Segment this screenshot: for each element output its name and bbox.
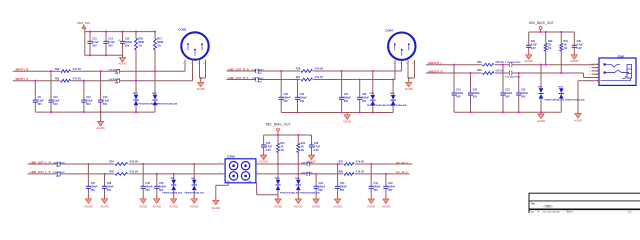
svg-text:AGND: AGND xyxy=(190,205,198,209)
wire middle ground rail xyxy=(281,112,393,114)
capacitor C39 xyxy=(311,135,313,143)
resistor R19 xyxy=(300,69,313,73)
wire CON3 shell ground xyxy=(205,65,207,78)
wire CON7 pin6 ground xyxy=(578,80,592,82)
capacitor C9 column xyxy=(34,81,36,100)
svg-text:TE12: TE12 xyxy=(390,93,396,95)
svg-text:50V: 50V xyxy=(505,96,510,99)
wire MIC_BIAS bottom rail xyxy=(264,134,312,136)
svg-text:PESD5V0S1BA-A08: PESD5V0S1BA-A08 xyxy=(565,98,585,101)
capacitor C38 column xyxy=(104,174,106,186)
svg-text:AGND: AGND xyxy=(367,205,375,209)
ground AGND TE6 xyxy=(191,199,197,204)
svg-text:C36 220uF/: C36 220uF/ xyxy=(301,162,313,164)
svg-text:MIC_BIAS_OUT: MIC_BIAS_OUT xyxy=(529,21,554,25)
ground AGND of C11 C14 C15 xyxy=(122,55,124,57)
capacitor C13 column xyxy=(100,71,102,100)
ground AGND C38 xyxy=(101,199,107,204)
svg-text:TE15: TE15 xyxy=(275,178,281,180)
capacitor C25 column xyxy=(359,80,361,98)
svg-text:4: 4 xyxy=(589,74,590,76)
capacitor C41 column xyxy=(370,164,372,186)
svg-text:PESD5V0S1BA-A08: PESD5V0S1BA-A08 xyxy=(163,191,183,194)
capacitor C28 series xyxy=(57,172,59,176)
ground AGND C44 xyxy=(140,199,146,204)
wire LINE_OUT_L_N xyxy=(28,163,223,165)
svg-text:16V: 16V xyxy=(56,176,60,178)
TVS diode TE16 xyxy=(297,174,299,180)
capacitor C16 series xyxy=(116,69,118,73)
capacitor C14 xyxy=(105,32,107,42)
net flag circle bottom xyxy=(277,128,280,131)
capacitor C22 column xyxy=(470,73,472,93)
net flag circle xyxy=(539,26,542,29)
svg-text:4.7k 1%: 4.7k 1% xyxy=(495,70,503,73)
svg-text:6.3V: 6.3V xyxy=(314,149,319,152)
svg-text:TE14: TE14 xyxy=(152,92,158,95)
svg-text:AGND: AGND xyxy=(197,87,205,91)
svg-text:C16 220uF/: C16 220uF/ xyxy=(108,70,120,72)
capacitor C11 xyxy=(89,32,91,42)
wire INPUT1_N xyxy=(13,70,185,72)
svg-text:C29 220uF/: C29 220uF/ xyxy=(53,162,65,164)
svg-text:PESD5V0S1BA-A08: PESD5V0S1BA-A08 xyxy=(158,102,178,105)
svg-text:50V: 50V xyxy=(340,189,345,192)
wire CON5 G2 ground xyxy=(256,183,258,195)
svg-text:50V: 50V xyxy=(300,100,305,103)
svg-text:AGND: AGND xyxy=(212,206,220,210)
svg-text:4.7k 1%: 4.7k 1% xyxy=(73,77,81,80)
CON7 jack sleeve line xyxy=(601,78,631,81)
junction dots on ground return xyxy=(89,54,91,56)
svg-text:1: 1 xyxy=(257,162,258,164)
svg-text:MIC_12V: MIC_12V xyxy=(78,21,91,25)
svg-text:3: 3 xyxy=(220,172,221,174)
svg-text:AGND: AGND xyxy=(382,205,390,209)
svg-text:2: 2 xyxy=(220,162,221,164)
svg-text:C18 220uF/: C18 220uF/ xyxy=(252,78,264,80)
svg-text:50V: 50V xyxy=(344,100,349,103)
svg-text:AGND: AGND xyxy=(170,205,178,209)
svg-text:50V: 50V xyxy=(86,103,91,106)
svg-text:R24: R24 xyxy=(110,161,115,164)
ground AGND left block xyxy=(100,112,102,121)
wire CON3 pin1 to INPUT1_N xyxy=(184,65,186,71)
wire INPUT1_P xyxy=(13,80,193,82)
svg-text:PESD5V0S1BA-A08: PESD5V0S1BA-A08 xyxy=(387,104,407,107)
ground AGND C45 xyxy=(154,199,160,204)
svg-text:AGND: AGND xyxy=(259,159,267,163)
wire LINE_OUT_R_N xyxy=(227,70,402,72)
svg-text:50V: 50V xyxy=(362,100,367,103)
svg-text:3: 3 xyxy=(197,63,198,65)
svg-text:C35 220uF/: C35 220uF/ xyxy=(301,172,313,174)
svg-text:AGND: AGND xyxy=(537,119,545,123)
svg-text:G1: G1 xyxy=(227,181,230,183)
CON3 pin stubs xyxy=(184,60,186,65)
junction dots input wires xyxy=(50,70,52,72)
svg-text:PESD5V0S1BA-A08: PESD5V0S1BA-A08 xyxy=(367,104,387,107)
svg-text:R28: R28 xyxy=(339,172,344,174)
resistor R24 xyxy=(114,162,128,166)
TVS diode TE9 xyxy=(540,65,542,89)
TVS diode TE12 xyxy=(392,80,394,96)
svg-text:50V: 50V xyxy=(284,100,289,103)
wire LINEOUT2 elbow to pin5 xyxy=(583,73,585,78)
wire LINEOUT2 xyxy=(426,72,584,74)
svg-text:PESD5V0S1BA-A08: PESD5V0S1BA-A08 xyxy=(185,191,205,194)
svg-text:AGND: AGND xyxy=(153,205,161,209)
svg-text:16V: 16V xyxy=(115,83,119,85)
ground AGND TE15 xyxy=(275,199,281,204)
ground AGND right block xyxy=(540,112,542,114)
TVS diode TE10 xyxy=(559,88,564,93)
CON4 pin stubs xyxy=(394,60,396,65)
ground AGND C42 xyxy=(383,199,389,204)
svg-text:AGND: AGND xyxy=(118,61,126,65)
ground AGND CON7 xyxy=(575,114,581,119)
svg-text:4.7k 1%: 4.7k 1% xyxy=(130,171,138,174)
ground AGND C40 xyxy=(261,155,267,160)
svg-text:50V: 50V xyxy=(53,103,58,106)
resistor R25 xyxy=(114,172,128,176)
CON7 jack symbol ring contact xyxy=(604,72,606,74)
wire CON4 pin2 riser xyxy=(401,65,403,71)
svg-text:MIC_IN2_P: MIC_IN2_P xyxy=(396,172,408,174)
svg-text:50V: 50V xyxy=(146,189,151,192)
capacitor C25b column xyxy=(518,73,520,93)
svg-text:C28 220uF/: C28 220uF/ xyxy=(53,172,65,174)
svg-text:R19: R19 xyxy=(296,69,301,71)
resistor R18 xyxy=(60,69,71,73)
ground AGND middle block xyxy=(346,113,348,115)
capacitor C21 xyxy=(528,32,530,43)
capacitor C23 column xyxy=(502,65,504,93)
ground AGND C37 xyxy=(85,199,91,204)
svg-text:4.7k 1%: 4.7k 1% xyxy=(130,161,138,164)
svg-text:AGND: AGND xyxy=(312,205,320,209)
svg-text:PESD5V0S1BA-A08: PESD5V0S1BA-A08 xyxy=(280,192,300,195)
capacitor C18 series xyxy=(255,77,257,81)
wire MIC2_IN_P xyxy=(258,173,409,175)
TVS diode TE5 xyxy=(173,174,175,180)
capacitor C34 column xyxy=(337,164,339,186)
svg-text:1: 1 xyxy=(183,63,184,65)
svg-text:50V: 50V xyxy=(456,96,461,99)
svg-text:AGND: AGND xyxy=(574,119,582,123)
title block frame xyxy=(529,193,640,215)
wire CON3 pin2 to INPUT1_P xyxy=(192,65,194,81)
svg-text:AGND: AGND xyxy=(570,59,578,63)
svg-text:5: 5 xyxy=(589,77,590,79)
ground AGND C21 xyxy=(526,55,532,60)
ground AGND C20 xyxy=(571,55,577,60)
resistor R28 xyxy=(343,172,354,176)
wire LINE_OUT_L_P xyxy=(28,173,223,175)
svg-text:50V: 50V xyxy=(103,103,108,106)
svg-text:AGND: AGND xyxy=(333,205,341,209)
resistor R20 xyxy=(545,32,547,43)
junction dots on MIC_12V rail xyxy=(89,31,91,33)
svg-text:C19 220uF/: C19 220uF/ xyxy=(108,79,120,81)
wire CON3 pin3 ground xyxy=(199,65,201,78)
svg-text:3: 3 xyxy=(589,71,590,73)
svg-text:Document Number: Document Number xyxy=(543,210,561,213)
svg-text:AGND: AGND xyxy=(100,205,108,209)
svg-text:4.7k 1%: 4.7k 1% xyxy=(315,76,323,79)
junction dots right wires xyxy=(453,64,455,66)
TVS diode TE15 xyxy=(277,164,279,180)
capacitor C45 column xyxy=(156,174,158,186)
capacitor C26 column xyxy=(280,71,282,97)
junction dots middle wires xyxy=(280,70,282,72)
resistor R27 xyxy=(343,162,354,166)
capacitor C19 series xyxy=(116,79,118,83)
svg-text:4: 4 xyxy=(257,172,258,174)
wire LINE_OUT_R_P xyxy=(227,79,396,81)
capacitor C40 xyxy=(263,135,265,143)
svg-text:C13 220uF/16V: C13 220uF/16V xyxy=(505,62,521,64)
capacitor C17 series xyxy=(255,69,257,73)
capacitor C12 column xyxy=(83,81,85,100)
svg-text:50V: 50V xyxy=(107,189,112,192)
wire left ground rail xyxy=(35,111,155,113)
svg-text:TE16: TE16 xyxy=(295,178,301,180)
capacitor C13 series xyxy=(509,63,511,67)
svg-text:50V: 50V xyxy=(521,96,526,99)
svg-text:4.7k 1%: 4.7k 1% xyxy=(73,68,81,71)
ground AGND CON3 xyxy=(200,78,202,82)
svg-text:AGND: AGND xyxy=(343,120,351,124)
svg-text:1: 1 xyxy=(589,64,590,66)
capacitor C33 column xyxy=(315,174,317,186)
svg-text:CON4: CON4 xyxy=(385,28,393,32)
svg-text:16V: 16V xyxy=(115,73,119,75)
ground AGND CON4 xyxy=(408,78,410,82)
svg-text:16V: 16V xyxy=(125,45,130,48)
svg-text:50V: 50V xyxy=(91,189,96,192)
wire CON5 G1 ground xyxy=(227,183,229,186)
wire CON4 ground stubs xyxy=(407,65,409,78)
svg-text:MIC_BIAS_OUT: MIC_BIAS_OUT xyxy=(266,122,291,126)
CON7 pin stubs xyxy=(592,63,600,65)
capacitor C42 column xyxy=(385,174,387,186)
wire MIC_BIAS rail xyxy=(529,31,575,33)
resistor R17 xyxy=(154,32,156,39)
capacitor C37 column xyxy=(87,164,89,186)
capacitor C27 column xyxy=(341,71,343,97)
svg-text:AGND: AGND xyxy=(274,205,282,209)
svg-text:AGND: AGND xyxy=(525,59,533,63)
capacitor C20 xyxy=(573,32,575,43)
resistor R11 xyxy=(277,135,279,143)
wire LINEOUT1 xyxy=(426,64,594,66)
svg-text:Title: Title xyxy=(531,202,536,205)
wire right ground rail xyxy=(454,111,561,113)
svg-text:R27: R27 xyxy=(339,162,344,164)
ground AGND C34 xyxy=(335,199,341,204)
ground AGND C33 xyxy=(313,199,319,204)
resistor R16 xyxy=(135,32,137,39)
svg-text:MIC_IN2_N: MIC_IN2_N xyxy=(396,162,408,164)
capacitor C10b column xyxy=(453,65,455,93)
TVS diode TE11 xyxy=(372,71,374,95)
wire MIC_12V rail xyxy=(85,31,155,33)
TVS diode TE14 xyxy=(153,95,158,100)
svg-text:<Doc>: <Doc> xyxy=(566,211,574,213)
svg-text:R30: R30 xyxy=(477,62,482,64)
svg-text:R18: R18 xyxy=(55,69,60,71)
svg-text:50V: 50V xyxy=(473,96,478,99)
svg-text:TE11: TE11 xyxy=(369,93,375,95)
svg-text:TE13: TE13 xyxy=(133,93,139,95)
wire MIC_12V vertical xyxy=(84,28,86,55)
svg-text:R22: R22 xyxy=(55,78,60,80)
CON7 jack symbol tip contact xyxy=(604,63,606,65)
CON5 pin stubs xyxy=(222,163,225,165)
svg-text:4.7k 1%: 4.7k 1% xyxy=(356,161,364,164)
capacitor C12 series xyxy=(509,71,511,75)
svg-text:16V: 16V xyxy=(56,166,60,168)
capacitor C44 column xyxy=(142,164,144,186)
svg-text:3: 3 xyxy=(406,63,407,65)
svg-text:2: 2 xyxy=(589,67,590,69)
svg-text:50V: 50V xyxy=(38,103,43,106)
junction dots bottom-left wires xyxy=(87,163,89,165)
ground AGND C39 xyxy=(308,155,314,160)
svg-text:50V: 50V xyxy=(374,189,379,192)
svg-text:AGND: AGND xyxy=(294,205,302,209)
svg-text:6.3V: 6.3V xyxy=(531,47,536,50)
svg-text:6.3V: 6.3V xyxy=(266,149,271,152)
power flag MIC_12V xyxy=(82,25,86,28)
TVS diode TE13 xyxy=(134,95,139,100)
svg-text:AGND: AGND xyxy=(139,205,147,209)
capacitor C36 series xyxy=(306,162,308,166)
svg-text:50V: 50V xyxy=(318,189,323,192)
svg-text:16V: 16V xyxy=(108,45,113,48)
svg-text:16V: 16V xyxy=(258,73,262,75)
capacitor C10 column xyxy=(50,71,52,100)
ground AGND CON5 G1 xyxy=(213,200,219,205)
resistor R21 series xyxy=(300,78,313,82)
svg-text:TE10: TE10 xyxy=(558,87,564,89)
wire CON4 pin1 riser xyxy=(394,65,396,79)
resistor R12 xyxy=(297,135,299,143)
wire MIC2_IN_N xyxy=(258,163,412,165)
svg-text:16V: 16V xyxy=(92,45,97,48)
svg-text:4.7k 1%: 4.7k 1% xyxy=(495,61,503,64)
svg-text:4.7k 1%: 4.7k 1% xyxy=(356,171,364,174)
capacitor C35 series xyxy=(306,172,308,176)
svg-text:AGND: AGND xyxy=(96,126,104,130)
ground AGND TE5 xyxy=(171,199,177,204)
svg-text:1: 1 xyxy=(393,63,394,65)
svg-text:R29: R29 xyxy=(477,70,482,72)
svg-text:AGND: AGND xyxy=(405,87,413,91)
resistor R29 xyxy=(482,71,495,75)
svg-text:G2: G2 xyxy=(248,181,251,183)
capacitor C24 column xyxy=(297,80,299,98)
svg-text:16V: 16V xyxy=(258,81,262,83)
resistor R22 xyxy=(60,79,71,83)
svg-text:2: 2 xyxy=(399,63,400,65)
svg-text:R25: R25 xyxy=(110,172,115,174)
wire ground return rail xyxy=(85,54,123,56)
svg-text:AGND: AGND xyxy=(84,205,92,209)
svg-text:CON5: CON5 xyxy=(227,155,235,159)
resistor R30 xyxy=(482,63,495,67)
ground AGND TE16 xyxy=(295,199,301,204)
svg-text:6.3V: 6.3V xyxy=(577,47,582,50)
svg-text:CON3: CON3 xyxy=(178,27,186,31)
capacitor C15 xyxy=(122,32,124,42)
CON7 jack plug stack xyxy=(627,65,632,79)
svg-text:2: 2 xyxy=(190,63,191,65)
ground AGND C41 xyxy=(368,199,374,204)
capacitor C29 series xyxy=(57,162,59,166)
svg-text:50V: 50V xyxy=(388,189,393,192)
TVS diode TE6 xyxy=(193,164,195,180)
junction dots bottom-middle wires xyxy=(277,163,279,165)
svg-text:<Title>: <Title> xyxy=(543,205,553,209)
svg-text:C17 220uF/: C17 220uF/ xyxy=(252,69,264,71)
resistor R21b xyxy=(560,32,562,43)
svg-text:4.7k 1%: 4.7k 1% xyxy=(315,68,323,71)
